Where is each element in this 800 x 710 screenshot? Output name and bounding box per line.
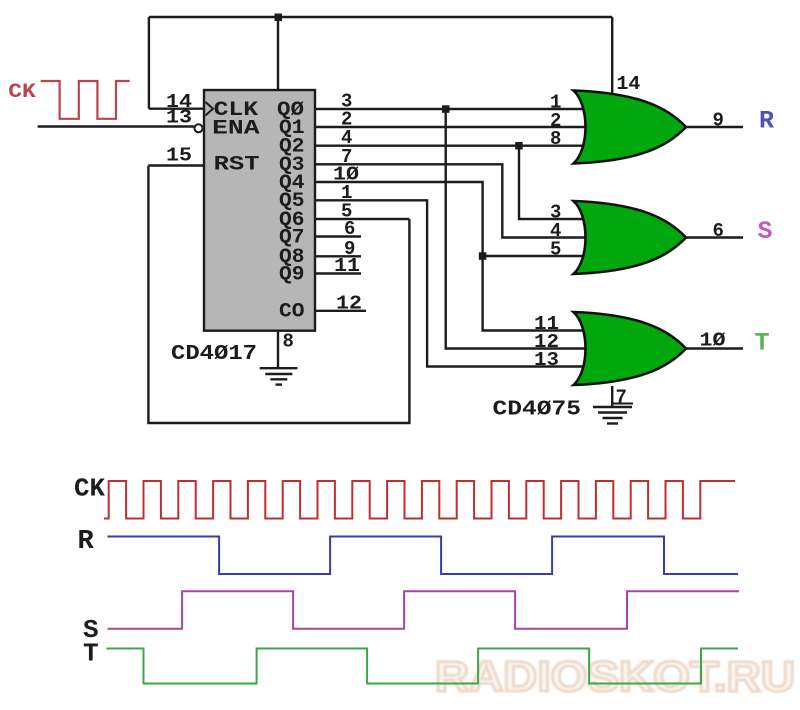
waveform CK: [104, 481, 735, 519]
wire CO stub: [315, 310, 366, 312]
waveform S: [108, 591, 740, 628]
pin 7 underline: [612, 403, 633, 405]
wire U2 pin 7 ground stem: [611, 386, 613, 407]
svg-text:7: 7: [616, 387, 627, 409]
wire U2C output: [686, 347, 743, 349]
wire U2A output: [686, 126, 743, 128]
svg-text:CO: CO: [279, 301, 305, 324]
watermark radioskot.ru: [435, 653, 795, 701]
svg-text:14: 14: [616, 73, 640, 95]
wire Q5 to U2C input 13: [315, 200, 588, 366]
svg-text:15: 15: [166, 145, 192, 167]
wire Q1 to U2A input 2: [315, 126, 588, 128]
wire RST: [148, 164, 204, 166]
wire CLK: [149, 107, 204, 109]
junction Q0 branch: [442, 105, 450, 113]
wire Q8 stub: [315, 255, 361, 257]
wire top rail drop to U1 pin 16: [277, 17, 279, 91]
clock waveform symbol: [41, 81, 130, 119]
wire Q9 stub: [315, 272, 361, 274]
svg-text:R: R: [759, 107, 774, 136]
wire Q7 stub: [315, 235, 361, 237]
junction Q4 branch: [479, 252, 487, 259]
waveform R: [108, 537, 739, 575]
svg-text:T: T: [755, 329, 770, 358]
or-gate U2C: [574, 312, 687, 385]
svg-text:CK: CK: [74, 474, 105, 504]
svg-text:6: 6: [713, 220, 724, 242]
svg-text:1: 1: [341, 182, 352, 204]
wire Q2 branch to U2B input 3: [519, 146, 588, 219]
wire Q3 to U2B input 4: [315, 164, 588, 237]
IC U1 CD4017: [204, 90, 315, 331]
svg-text:CK: CK: [8, 81, 36, 104]
svg-text:RADIOSKOT.RU: RADIOSKOT.RU: [435, 653, 795, 701]
svg-text:8: 8: [283, 331, 294, 353]
wire top rail drop to U2 pin 14: [611, 17, 613, 95]
ground U1: [260, 368, 298, 384]
svg-text:Q9: Q9: [279, 263, 305, 286]
wire Q0 to U2A input 1: [315, 108, 588, 110]
wire Q4 to U2B input 5: [315, 182, 588, 256]
or-gate U2B: [574, 201, 687, 274]
wire ENA: [38, 125, 195, 127]
svg-text:8: 8: [550, 128, 561, 150]
junction Q2 branch: [515, 142, 523, 150]
or-gate U2A: [574, 91, 687, 164]
svg-text:CD4Ø17: CD4Ø17: [171, 343, 257, 366]
svg-text:ENA: ENA: [212, 118, 260, 141]
wire Q6: [315, 218, 409, 220]
wire VDD top rail: [149, 16, 612, 18]
svg-text:CD4Ø75: CD4Ø75: [493, 399, 582, 422]
clock arrow: [206, 102, 214, 115]
wire U1 pin 8 ground stem: [277, 331, 279, 368]
svg-text:1Ø: 1Ø: [700, 330, 726, 352]
wire Q0 branch to U2C input 12: [446, 109, 588, 349]
junction top rail: [275, 14, 283, 22]
svg-text:RST: RST: [214, 154, 260, 177]
ground U2: [593, 407, 632, 424]
svg-text:R: R: [78, 527, 95, 557]
svg-text:T: T: [83, 639, 99, 669]
wire Q2 to U2A input 8: [315, 144, 588, 146]
svg-text:S: S: [758, 217, 773, 246]
svg-text:12: 12: [336, 292, 362, 314]
wire top rail left drop to CLK: [148, 17, 150, 109]
ENA inverter bubble: [195, 124, 203, 132]
wire Q4 branch to U2C input 11: [483, 256, 588, 331]
wire RST feedback loop from Q6: [148, 166, 409, 424]
wire U2B output: [686, 236, 743, 238]
svg-text:6: 6: [344, 218, 355, 240]
svg-text:9: 9: [713, 110, 724, 132]
svg-text:13: 13: [166, 107, 192, 129]
svg-text:11: 11: [334, 255, 360, 277]
svg-text:13: 13: [534, 349, 559, 371]
svg-text:5: 5: [550, 238, 561, 260]
waveform T: [106, 649, 738, 684]
